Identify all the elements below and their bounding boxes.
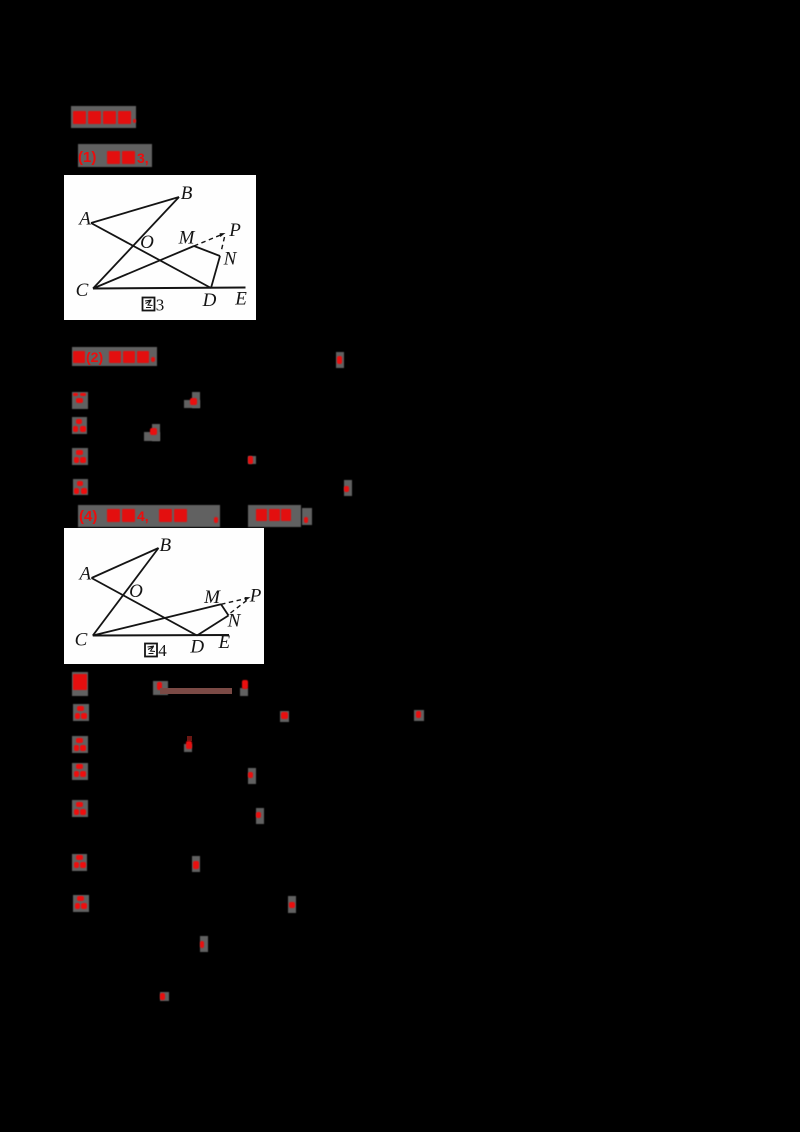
red line 3: from (2) [72,347,157,366]
row A [72,672,88,696]
svg-text:E: E [234,289,247,310]
svg-text:3: 3 [156,296,165,315]
wire B-C [93,548,159,636]
svg-text:M: M [178,228,196,249]
dashed M-P arrow [194,235,222,246]
proof row 4 [73,479,88,496]
row B [73,704,89,721]
proof row 1 [72,392,88,409]
line3 stray mark [336,352,344,368]
wire N-D [211,256,220,288]
row C [72,736,88,753]
red line 2: (1) fig3 [78,144,152,167]
wire N-D [197,616,229,636]
row G [73,895,89,912]
wire A-D [92,578,198,636]
red heading line 1 [71,106,136,128]
wire C-M [93,246,194,289]
wire C-M [93,604,221,635]
svg-text:P: P [228,220,241,241]
row I [160,992,169,1001]
dashed P-N [221,237,225,252]
row H [200,936,208,952]
svg-text:M: M [203,587,221,608]
maroon underline bar [160,688,232,694]
svg-text:D: D [189,636,204,657]
svg-text:A: A [77,209,91,230]
row F [72,854,87,871]
proof row 3 [72,448,88,465]
dashed M-P arrow [221,599,246,605]
row E [72,800,88,817]
wire A-B [91,197,179,223]
svg-text:O: O [140,232,154,253]
figure 4 [64,528,264,664]
svg-text:O: O [129,581,143,602]
wire B-C [93,197,179,289]
caption 图3 [143,298,155,311]
dashed N-P [231,600,249,614]
wire C-E baseline [93,288,246,289]
svg-text:B: B [181,183,193,204]
red line 4: (4) fig4 [78,505,220,527]
wire C-E baseline [93,634,229,637]
wire M-N [221,604,229,615]
svg-text:P: P [249,586,262,607]
svg-text:D: D [202,290,217,311]
figure 3 [64,175,256,320]
svg-text:B: B [159,535,171,556]
svg-text:N: N [223,249,238,270]
svg-text:N: N [227,611,242,632]
svg-text:C: C [76,280,89,301]
svg-text:A: A [77,563,91,584]
svg-text:C: C [75,629,88,650]
wire A-D [91,223,211,288]
caption 图4 [145,644,157,657]
row D [72,763,88,780]
svg-text:E: E [217,632,230,653]
svg-text:4: 4 [158,641,167,660]
proof row 2 [72,417,88,434]
wire A-B [92,548,159,578]
wire M-N [194,246,220,256]
